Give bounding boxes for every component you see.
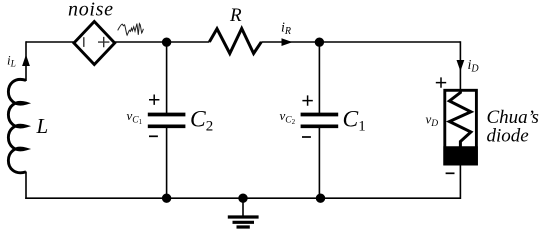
wire: C1 branch vertical <box>318 42 320 198</box>
wire: bottom rail <box>25 197 460 199</box>
noise source U1 (diamond) <box>74 22 115 65</box>
noise source plus sign <box>98 37 109 47</box>
svg-text:noise: noise <box>68 0 114 21</box>
svg-text:vC1: vC1 <box>127 108 143 126</box>
wire: left branch vertical <box>25 41 27 199</box>
node: bottom rail ground junction <box>238 194 247 203</box>
ground symbol <box>242 198 244 216</box>
current arrow i_D (down) <box>457 60 465 71</box>
wire: top rail from resistor to node B and right corner <box>261 41 460 43</box>
wire: top rail left segment (left corner to noise source) <box>26 41 74 43</box>
svg-text:L: L <box>36 114 49 138</box>
svg-text:C1: C1 <box>343 107 366 135</box>
capacitor C1 plates <box>301 115 339 127</box>
C1 minus sign <box>302 136 311 138</box>
wire: right branch vertical (to Chua's diode) <box>459 41 461 199</box>
diode minus sign <box>446 172 455 174</box>
svg-text:C2: C2 <box>190 107 213 135</box>
Chua's diode internal zigzag <box>449 91 471 148</box>
current arrow i_R (right) <box>282 38 293 46</box>
svg-text:diode: diode <box>487 126 529 147</box>
noise waveform squiggle <box>118 24 144 36</box>
C2 plus sign <box>149 95 159 105</box>
capacitor C2 plates <box>148 115 186 127</box>
wire: top rail from noise source to node A <box>115 41 210 43</box>
node B (top, after resistor) <box>315 38 324 47</box>
node A (top, after noise source) <box>162 38 171 47</box>
resistor R zigzag <box>209 29 261 54</box>
svg-text:iR: iR <box>281 21 291 38</box>
Chua's diode box NR <box>445 90 477 164</box>
noise source minus terminal bar <box>83 37 85 47</box>
node: bottom rail under C1 <box>316 194 325 203</box>
svg-text:iD: iD <box>468 58 480 75</box>
node: bottom rail under C2 <box>162 194 171 203</box>
C1 plus sign <box>302 95 312 105</box>
diode plus sign <box>436 77 446 87</box>
wire: C2 branch vertical <box>166 42 168 198</box>
inductor L coil <box>8 79 26 172</box>
svg-text:vC2: vC2 <box>280 108 296 126</box>
Chua's diode bottom black fill <box>445 148 477 164</box>
svg-text:iL: iL <box>7 53 16 70</box>
svg-text:R: R <box>229 5 242 26</box>
current arrow i_L (up) <box>22 55 30 67</box>
C2 minus sign <box>149 135 158 137</box>
svg-text:vD: vD <box>426 112 439 130</box>
